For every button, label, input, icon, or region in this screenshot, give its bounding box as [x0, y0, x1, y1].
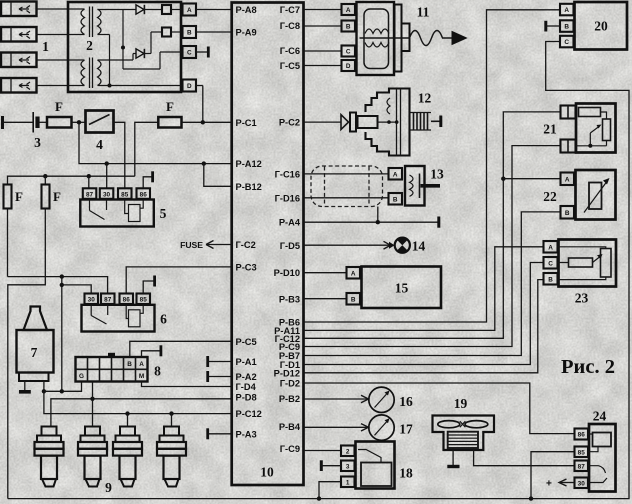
relay 6 pin 85	[137, 294, 151, 305]
svg-text:A: A	[564, 7, 569, 14]
component 1 (spark-gap connectors block)	[1, 2, 49, 93]
svg-text:A: A	[393, 171, 398, 178]
svg-text:Р-А3: Р-А3	[236, 429, 257, 439]
svg-text:86: 86	[140, 191, 148, 198]
svg-text:Р-А12: Р-А12	[236, 159, 262, 169]
wire 19 right leg to 24-87	[474, 448, 575, 466]
ignition module 2	[68, 2, 183, 92]
module 2 pin B	[183, 26, 197, 38]
svg-text:F: F	[166, 99, 174, 114]
comp 20 pin B	[560, 20, 574, 32]
svg-text:B: B	[351, 296, 356, 303]
wire P-C9 to 21 bottom	[304, 146, 561, 347]
wire ECU P-A1 stub terminal	[208, 356, 232, 367]
wire G-D16 to 13B	[304, 197, 389, 199]
wire fuse Fv2 down jog left	[8, 209, 46, 499]
svg-text:A: A	[351, 270, 356, 277]
wire G-C12 to 21 top	[304, 112, 561, 338]
wire module2 B to ECU P-A9	[196, 31, 232, 33]
stub terminal at 20 pin B	[546, 21, 560, 32]
svg-text:C: C	[187, 50, 192, 57]
fuel pump 7	[17, 307, 54, 382]
svg-text:18: 18	[399, 466, 413, 481]
svg-text:3: 3	[346, 464, 350, 471]
svg-text:Рис. 2: Рис. 2	[561, 356, 615, 378]
svg-text:30: 30	[103, 191, 111, 198]
comp 15 pin A	[347, 267, 361, 279]
svg-text:Р-В2: Р-В2	[279, 394, 300, 404]
svg-text:Р-С12: Р-С12	[236, 409, 262, 419]
svg-text:6: 6	[160, 312, 167, 327]
wire shield drain to P-A4	[377, 207, 379, 223]
svg-text:Р-В4: Р-В4	[279, 422, 301, 432]
comp 11 pin B	[342, 21, 356, 32]
svg-text:D: D	[187, 83, 192, 90]
diode Q1	[136, 5, 144, 14]
wire ECU P-A2 stub terminal	[208, 371, 232, 382]
wire P-D10 to 15A	[304, 272, 347, 274]
fuel pump relay 24	[588, 409, 616, 492]
wire distribution bus y176	[8, 176, 135, 184]
wire battery to fuse F1	[40, 121, 48, 123]
svg-text:Р-В12: Р-В12	[236, 182, 262, 192]
transformer T1 windings	[68, 7, 101, 38]
svg-text:3: 3	[34, 135, 41, 150]
svg-text:7: 7	[31, 345, 38, 360]
wire G-C16 to 13A	[304, 173, 389, 175]
wire ECU P-C12 row	[44, 391, 232, 413]
wire P-B4 to gauge 17	[304, 424, 369, 431]
battery terminal bar	[1, 116, 4, 129]
node relay6-30 jog	[60, 283, 64, 287]
svg-text:87: 87	[86, 191, 94, 198]
comp 15 pin B	[347, 293, 361, 305]
node plug2 tie	[90, 397, 94, 401]
comp 21 connector pins	[561, 106, 576, 153]
svg-text:85: 85	[121, 191, 129, 198]
svg-text:21: 21	[543, 122, 557, 137]
module 2 internal wiring top channel	[98, 9, 163, 11]
svg-text:Р-А1: Р-А1	[236, 357, 257, 367]
comp 23 pin C	[544, 257, 558, 269]
relay 6 pin 86	[120, 294, 134, 305]
wire module2 C to stub terminal	[196, 47, 208, 58]
relay 5 pin 86	[137, 188, 151, 199]
module 2 internal wiring bottom channel	[98, 32, 163, 60]
wire battery bus to ECU P-A12	[79, 122, 232, 163]
relay 6 pin 87	[101, 294, 115, 305]
wire module2 A to ECU P-A8	[196, 9, 232, 11]
svg-text:C: C	[548, 260, 553, 267]
svg-text:B: B	[127, 361, 132, 368]
idle air valve 11	[357, 2, 467, 75]
relay module 18	[356, 442, 414, 489]
svg-text:86: 86	[123, 297, 131, 304]
comp 18 pin 1	[341, 477, 355, 488]
node relay5-30 tap	[105, 161, 109, 165]
svg-text:2: 2	[346, 449, 350, 456]
wire down to plug 3	[127, 414, 129, 427]
module 2 pin C	[183, 46, 197, 58]
svg-text:85: 85	[140, 297, 148, 304]
svg-text:Р-А4: Р-А4	[279, 218, 301, 228]
svg-text:F: F	[53, 189, 61, 204]
coolant temp sensor 22	[543, 170, 615, 220]
wire tap to 22A	[503, 178, 560, 180]
svg-text:23: 23	[575, 291, 589, 306]
spark plug 9a	[35, 427, 64, 487]
wire P-B6 to 20A	[304, 10, 561, 322]
ECU 10	[232, 3, 304, 486]
svg-text:24: 24	[593, 409, 607, 424]
wire fuse F2 to ECU P-C1	[182, 121, 232, 123]
shielded cable for sensor 13	[311, 166, 383, 207]
svg-text:20: 20	[594, 19, 608, 34]
output square S1	[162, 5, 171, 14]
svg-text:C: C	[564, 39, 569, 46]
wire 8-A to stub terminal	[142, 345, 161, 357]
comp 20 pin C	[560, 36, 574, 48]
comp 20 pin A	[560, 4, 574, 16]
svg-text:87: 87	[578, 463, 586, 470]
module 2 pin D	[183, 80, 197, 92]
fuse F2	[158, 99, 181, 128]
pump 7 left leg to ground	[19, 381, 31, 392]
svg-text:+: +	[546, 479, 552, 490]
ignition switch 4	[86, 111, 114, 153]
wire bus y276 to relay6-87	[8, 277, 108, 294]
battery 3	[33, 112, 41, 150]
wire P-B3 to 15B	[304, 298, 347, 300]
svg-text:B: B	[346, 24, 351, 31]
common base line	[121, 10, 183, 70]
comp 18 pin 3	[341, 461, 355, 472]
svg-text:Р-D12: Р-D12	[274, 368, 300, 378]
svg-text:Г-D2: Г-D2	[280, 379, 300, 389]
wire jog to relay6-30	[62, 285, 91, 294]
wire 8-M to ECU G-D4	[142, 382, 232, 387]
diagnostic connector 20	[575, 2, 628, 50]
wire comp1 out2 to module 2	[37, 34, 69, 36]
svg-text:Р-С1: Р-С1	[236, 118, 257, 128]
diode Q2	[136, 49, 144, 58]
svg-text:Р-В3: Р-В3	[279, 295, 300, 305]
svg-text:B: B	[548, 276, 553, 283]
wire ECU P-C3 to relay6-86	[126, 267, 232, 294]
svg-text:Г-С8: Г-С8	[280, 21, 300, 31]
wire G-C8 to 11B	[304, 25, 342, 27]
wire G-C9 to 18 pin2	[304, 450, 342, 452]
svg-text:M: M	[139, 373, 144, 380]
primary return line	[98, 35, 183, 88]
wire fuse F2 left branch down	[135, 122, 159, 176]
relay 5 pin 30	[100, 188, 114, 199]
svg-text:17: 17	[399, 422, 413, 437]
wire tap to ECU P-B12	[204, 164, 232, 187]
svg-text:15: 15	[395, 281, 409, 296]
wire P-B7 to 22B	[304, 212, 561, 356]
svg-text:Г-С16: Г-С16	[275, 169, 300, 179]
svg-text:G: G	[79, 373, 84, 380]
svg-text:4: 4	[96, 137, 103, 152]
wire fuse Fv1 down to bus y276	[7, 209, 9, 277]
wire ECU P-D8 row to plug 1	[51, 399, 232, 427]
wire module2 D to node at P-C1	[196, 86, 203, 123]
module 2 pin A	[183, 4, 197, 16]
relay 5 pin 87	[83, 188, 97, 199]
gauge 17	[369, 415, 413, 440]
svg-text:Р-А2: Р-А2	[236, 372, 257, 382]
node P-C1 junction	[201, 120, 205, 124]
spark plug 9b	[78, 427, 107, 487]
node P-B12 tap	[202, 161, 206, 165]
svg-text:A: A	[139, 361, 144, 368]
svg-text:A: A	[346, 7, 351, 14]
comp 23 pin B	[544, 273, 558, 285]
fuse F1	[47, 99, 72, 128]
svg-text:86: 86	[578, 432, 586, 439]
wire P-A4 to stub terminal	[304, 217, 439, 228]
wire tap down to fuse Fv2	[44, 176, 46, 184]
node 22A tap	[501, 177, 505, 181]
svg-text:1: 1	[346, 480, 350, 487]
wire 24-85 down to ground bus	[531, 452, 575, 499]
relay 5 pin 85	[118, 188, 132, 199]
wire relay6-85 to stub terminal	[143, 276, 154, 294]
svg-text:B: B	[564, 24, 569, 31]
wire P-C2 to injector 12	[304, 121, 342, 123]
transformer T2 windings	[68, 58, 101, 89]
fuse Fv1	[4, 185, 24, 209]
svg-text:A: A	[548, 244, 553, 251]
connector 8 grid	[76, 353, 162, 382]
svg-text:B: B	[393, 196, 398, 203]
svg-text:2: 2	[86, 38, 93, 53]
svg-text:30: 30	[88, 297, 96, 304]
FUSE arrow from G-C2	[180, 240, 232, 250]
wire G-C7 to 11A	[304, 9, 342, 11]
wire G-D1 to 23C	[304, 263, 544, 365]
wire switch 4 output down to relay5-85	[114, 122, 125, 188]
comp 13 pin B	[389, 193, 403, 205]
svg-text:Р-С3: Р-С3	[236, 262, 257, 272]
svg-text:87: 87	[104, 297, 112, 304]
relay 6 pin 30	[85, 294, 99, 305]
wire G-D2 to 24-86	[304, 383, 575, 434]
wire P-D12 to 23B	[304, 280, 544, 373]
injector 12	[341, 89, 441, 156]
comp 24 pin 86	[575, 429, 589, 440]
warning lamp 14	[389, 238, 426, 254]
svg-text:A: A	[565, 176, 570, 183]
output square S2	[162, 28, 171, 37]
svg-text:FUSE: FUSE	[180, 240, 203, 250]
wire terminal to battery 3	[3, 121, 34, 123]
wire comp1 out4 to module 2	[37, 85, 69, 87]
19 left leg to ground	[447, 448, 459, 467]
svg-text:Г-D16: Г-D16	[275, 193, 300, 203]
svg-text:Р-А9: Р-А9	[236, 28, 257, 38]
svg-text:Р-С2: Р-С2	[279, 118, 300, 128]
MAF sensor 21	[543, 104, 615, 153]
wire ground row y391	[44, 382, 82, 392]
svg-text:Г-D4: Г-D4	[236, 382, 257, 392]
svg-text:30: 30	[578, 480, 586, 487]
wire comp1 out1 to module 2	[37, 8, 69, 10]
wire tap down to relay5-30	[106, 164, 108, 189]
wire ECU P-A3 stub terminal	[208, 428, 232, 439]
wire 18 pin1 to ground bus	[319, 482, 341, 499]
comp 24 pin 30	[575, 478, 589, 489]
wire 8-B to ECU P-C5	[130, 341, 232, 357]
node ground-branch on bus y276	[60, 274, 64, 278]
stub terminal to 18 pin 3	[321, 460, 341, 471]
spark plug 9d	[157, 427, 186, 487]
wire branch x62 down	[61, 277, 63, 392]
comp 23 pin A	[544, 241, 558, 253]
svg-text:19: 19	[454, 396, 468, 411]
node plug3 tie	[125, 411, 129, 415]
comp 13 pin A	[389, 168, 403, 180]
comp 24 pin 85	[575, 447, 589, 458]
svg-text:F: F	[15, 189, 23, 204]
comp 22 pin B	[561, 206, 575, 219]
svg-text:Р-D10: Р-D10	[274, 268, 300, 278]
svg-text:D: D	[346, 63, 351, 70]
node x62 tie	[60, 389, 64, 393]
svg-text:9: 9	[105, 480, 112, 495]
svg-text:Г-С2: Г-С2	[236, 240, 256, 250]
pump 7 right leg	[43, 381, 45, 391]
comp 22 pin A	[561, 173, 575, 186]
node battery junction	[77, 120, 81, 124]
node relay5-87 tap	[87, 174, 91, 178]
svg-text:Г-С5: Г-С5	[280, 61, 300, 71]
svg-text:Г-С9: Г-С9	[280, 444, 300, 454]
wire comp1 out3 to module 2	[37, 59, 69, 61]
wire P-B2 to gauge 16	[304, 395, 369, 402]
svg-text:14: 14	[412, 239, 426, 254]
svg-text:16: 16	[399, 394, 413, 409]
relay 6 body	[82, 304, 168, 332]
svg-text:A: A	[187, 7, 192, 14]
wire G-C6 to 11C	[304, 50, 342, 52]
node 18 ground tie	[317, 496, 321, 500]
svg-text:12: 12	[418, 91, 432, 106]
svg-text:Р-А8: Р-А8	[236, 5, 257, 15]
crank sensor 13	[405, 166, 444, 206]
relay 5 body	[80, 199, 166, 227]
wire tap down to relay5-87	[88, 176, 90, 188]
wire down to plug 4	[171, 414, 173, 427]
control unit 15	[362, 267, 442, 309]
oxygen sensor 19	[433, 396, 495, 450]
wire G-D5 to lamp 14	[304, 241, 391, 249]
svg-text:1: 1	[42, 39, 49, 54]
svg-text:8: 8	[154, 364, 161, 379]
svg-text:11: 11	[417, 5, 430, 20]
svg-text:Г-С7: Г-С7	[280, 5, 300, 15]
wire 24-30 plus arrow	[546, 479, 575, 490]
node pump ground junction	[42, 389, 46, 393]
node fuse Fv2 tap	[43, 174, 47, 178]
node 24-85 ground tie	[529, 496, 533, 500]
svg-text:B: B	[187, 30, 192, 37]
svg-text:Г-D5: Г-D5	[280, 241, 300, 251]
svg-text:Г-С6: Г-С6	[280, 46, 300, 56]
throttle position sensor 23	[558, 240, 617, 306]
comp 24 pin 87	[575, 461, 589, 472]
svg-text:Р-С5: Р-С5	[236, 337, 257, 347]
wire P-A11 to 23A	[304, 247, 544, 331]
wire relay5-86 to stub terminal	[143, 171, 152, 188]
comp 18 pin 2	[341, 446, 355, 457]
node plug4 tie	[169, 411, 173, 415]
svg-text:5: 5	[160, 206, 167, 221]
svg-text:C: C	[346, 49, 351, 56]
comp 11 pin D	[342, 60, 356, 71]
wire 8 cell2 down through to plug 2	[92, 382, 94, 427]
svg-text:10: 10	[260, 465, 274, 480]
svg-text:22: 22	[543, 189, 557, 204]
svg-text:F: F	[55, 99, 63, 114]
spark plug 9c	[113, 427, 142, 487]
svg-text:Р-D8: Р-D8	[236, 392, 257, 402]
wire fuse F1 to switch 4	[72, 121, 86, 123]
comp 11 pin A	[342, 4, 356, 15]
fuse Fv2	[42, 185, 62, 209]
comp 11 pin C	[342, 46, 356, 57]
gauge 16	[369, 387, 413, 412]
svg-text:85: 85	[578, 449, 586, 456]
svg-text:B: B	[565, 210, 570, 217]
svg-text:13: 13	[430, 167, 444, 182]
wire G-C5 to 11D	[304, 65, 342, 67]
